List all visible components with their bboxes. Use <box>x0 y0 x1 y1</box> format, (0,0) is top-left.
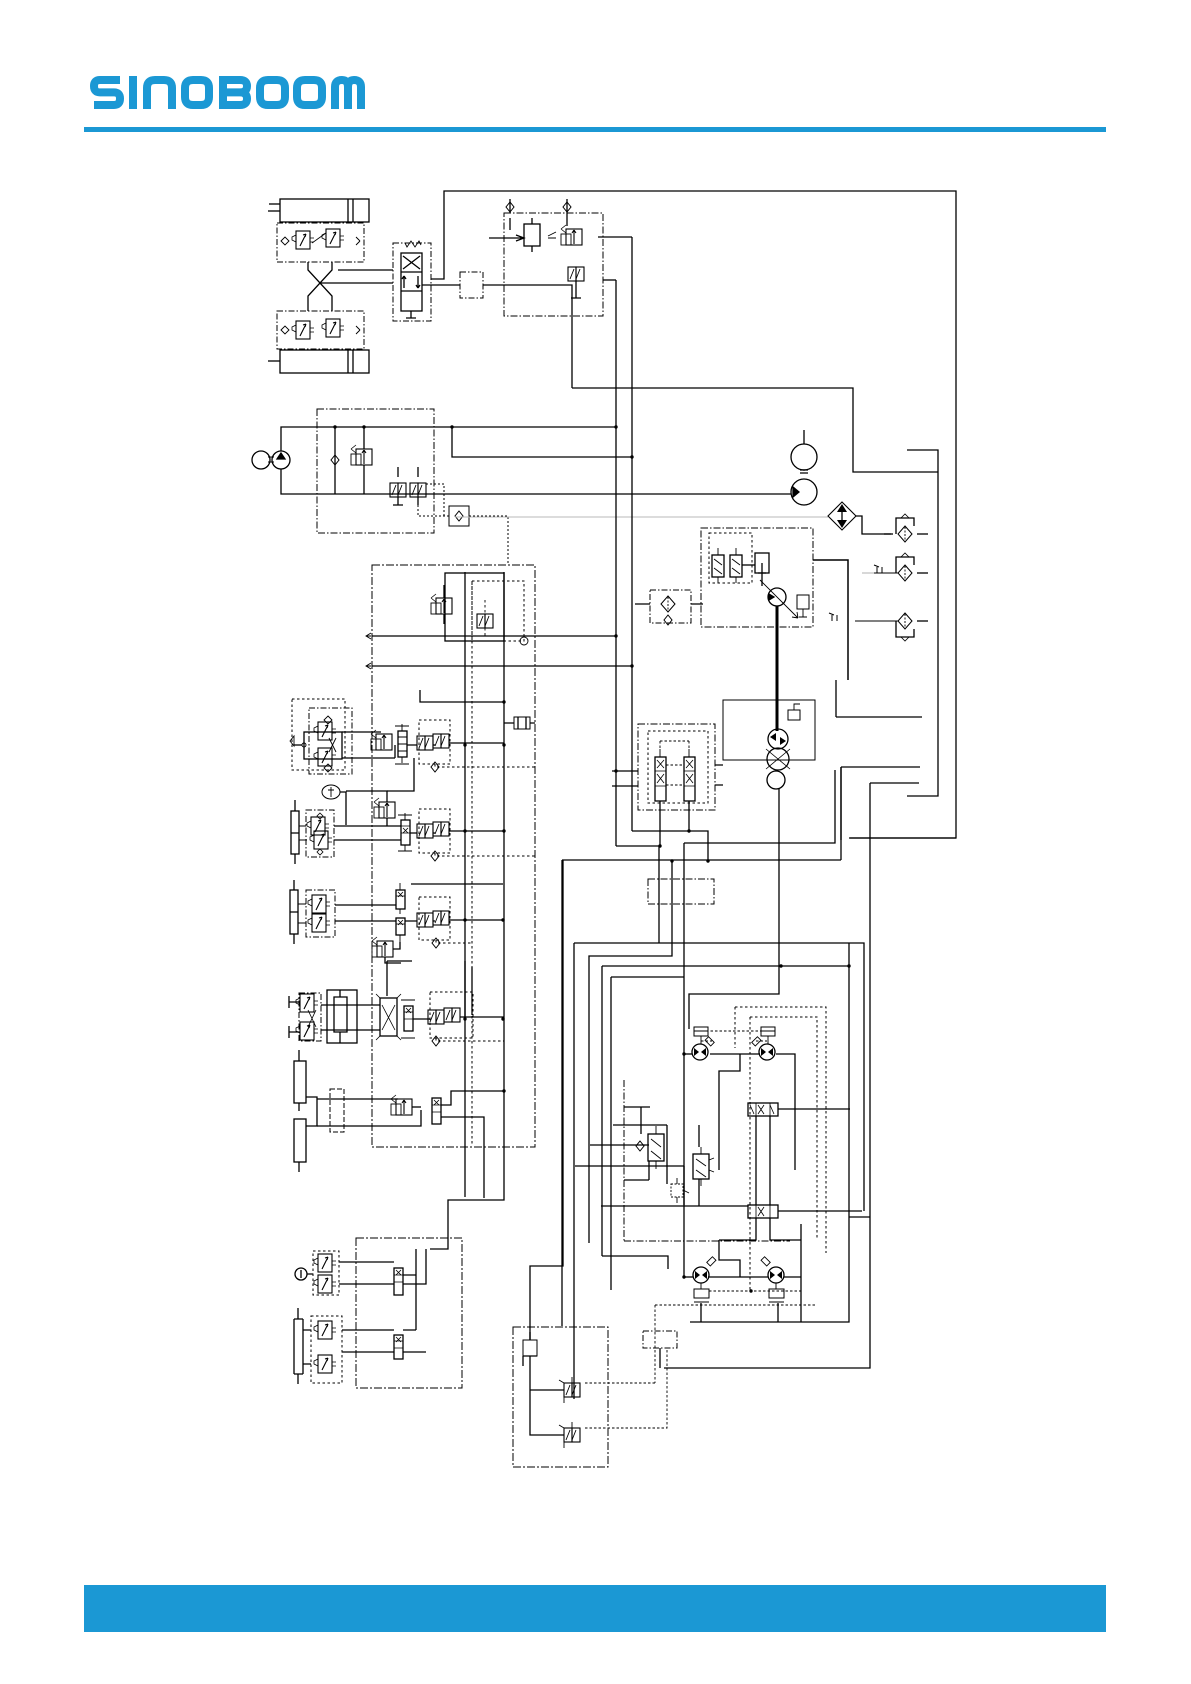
shuttle diamond drive <box>636 1141 644 1151</box>
wire steering unit top long loop <box>431 191 956 838</box>
gen spool 2 <box>394 1335 426 1359</box>
pl relief <box>372 937 401 963</box>
tele port valves dotted box <box>428 992 504 1038</box>
wire T bus step <box>632 831 708 860</box>
flow divider 2 <box>748 1205 778 1218</box>
rear motor R <box>761 1257 784 1302</box>
jib feed wires <box>334 826 401 840</box>
orifice in travel box <box>788 704 800 720</box>
swash pump circle <box>760 580 798 618</box>
accu out wires <box>441 1091 504 1198</box>
relief valve pump block <box>351 427 372 494</box>
swing prop spool <box>395 724 409 764</box>
accu spool <box>432 1098 441 1124</box>
pl port valves dotted box <box>405 897 503 940</box>
accumulator 1 <box>294 1050 306 1111</box>
wire drop 611 <box>611 977 684 1290</box>
swing top wire <box>420 690 504 702</box>
junction dots <box>333 425 850 1292</box>
tele top wires right <box>387 961 472 1019</box>
gen wires 2 <box>342 1330 394 1352</box>
port check top 1 <box>506 199 514 230</box>
drive manifold wires <box>575 1107 862 1240</box>
gen wires 1 <box>339 1262 394 1284</box>
front motor wires <box>684 789 795 1170</box>
cooler wire <box>856 516 891 534</box>
pl spool lower <box>396 918 405 942</box>
wire drop 672-589 <box>589 861 672 1243</box>
swing feed wires <box>342 732 395 758</box>
relief valve in priority block <box>548 225 582 245</box>
tele cylinder <box>327 990 357 1043</box>
rear motor wires <box>602 1224 801 1368</box>
emergency valve 2 <box>535 1422 580 1448</box>
jib cb valve block <box>299 810 334 857</box>
main pump circle <box>791 470 817 505</box>
wires from priority block down <box>598 237 632 280</box>
swing relief valve <box>371 730 392 750</box>
swing block dotted outer <box>292 699 345 770</box>
manifold inlet dotted box <box>472 581 528 645</box>
counterbalance valve block top (dashed) <box>277 223 364 262</box>
brake pilot dotted bus <box>585 1291 817 1428</box>
solenoid valve in priority block <box>568 267 584 298</box>
front motor L <box>692 1027 714 1060</box>
wire brake header <box>684 770 835 843</box>
drive valve 1 <box>648 1126 664 1169</box>
footer bar <box>84 1585 1106 1632</box>
emergency hand pump <box>523 1332 537 1366</box>
swing return dotted <box>435 764 537 767</box>
tele spool <box>401 1000 415 1038</box>
travel filter box <box>635 590 703 625</box>
tele return dotted + diamond <box>432 1036 504 1046</box>
accumulator 2 <box>294 1119 306 1172</box>
pump pressure line <box>281 427 616 451</box>
swing lock valve body <box>290 716 342 772</box>
tele lock block <box>289 993 321 1041</box>
swash servo piston <box>742 553 769 586</box>
tele wire to valves <box>413 1018 430 1020</box>
wire steering to unit <box>364 270 393 283</box>
rear motor L <box>693 1257 716 1302</box>
pl top wire <box>411 883 503 885</box>
SINOBOOM logo <box>94 76 361 109</box>
tele wires <box>321 1005 380 1030</box>
pilot filter square <box>449 506 469 526</box>
engine circle <box>252 451 270 469</box>
gen motor circle <box>295 1268 313 1280</box>
swing check diamond return <box>431 762 439 772</box>
ls valve pump block <box>410 467 426 505</box>
jib relief <box>346 758 414 826</box>
comp valve 1 <box>712 548 724 583</box>
drive enclosure top <box>574 943 864 1211</box>
pressure bus vertical <box>430 572 504 1249</box>
charge motor circle <box>791 430 817 470</box>
gen valve block 1 <box>313 1251 339 1295</box>
jib port valves dotted box <box>410 809 504 853</box>
travel spool 1 <box>655 749 666 808</box>
generator enclosure <box>356 1238 462 1388</box>
wire return header <box>562 767 841 860</box>
swing port valves dotted box <box>407 720 504 764</box>
pump control block (dash-dot) <box>701 528 813 627</box>
main manifold enclosure (dash-dot) <box>372 565 535 1147</box>
return filter 2 <box>896 553 928 581</box>
crossed steering lines <box>308 262 364 311</box>
pilot bus vertical dotted <box>464 572 466 1197</box>
suction line gray <box>455 516 828 518</box>
manifold top feed lines <box>366 237 632 846</box>
travel pilot dots <box>660 741 689 785</box>
drive valve manifold dashed edge <box>624 1080 790 1241</box>
steering cylinder bottom <box>268 350 369 373</box>
wire drop 684 <box>602 843 849 1277</box>
wire unit to mid block (dash-dot coupler) <box>422 272 572 388</box>
return filter 3 <box>896 613 928 641</box>
return filter 1 <box>884 512 928 546</box>
swing block dash-dot inner <box>309 708 352 774</box>
travel control enclosure <box>638 724 715 810</box>
accu dashed box <box>330 1089 344 1132</box>
jib return dotted <box>435 853 537 856</box>
emergency internal wires <box>530 1356 564 1435</box>
pl wires <box>335 905 396 921</box>
filter in priority block <box>524 218 540 252</box>
comp valve 2 <box>730 548 742 583</box>
travel spool 2 <box>684 749 695 808</box>
pl spool upper <box>396 883 405 914</box>
left port arrow priority block <box>489 235 524 241</box>
accu relief valve <box>391 1095 421 1115</box>
wire drop 602 <box>601 966 603 1256</box>
drive prop valve <box>693 1147 714 1186</box>
cooler bypass diamond <box>828 502 856 530</box>
pump to cooler wire <box>813 560 848 680</box>
gen spool 1 <box>394 1268 403 1295</box>
wire drop 574 <box>573 943 575 1399</box>
drive orifice valve <box>671 1178 689 1203</box>
header rule <box>84 127 1106 132</box>
pilot dotted lines pump <box>418 484 508 565</box>
wire P bus step <box>616 846 659 943</box>
travel wires <box>612 680 956 1368</box>
emergency valve 1 <box>535 1377 580 1403</box>
pl return dotted <box>436 940 472 943</box>
gen cylinder 2 <box>294 1308 311 1384</box>
wire left drop 562 <box>561 860 563 1326</box>
travel motor box <box>723 700 815 760</box>
tele crossover valve <box>376 994 401 1040</box>
bus vertical x563 <box>530 860 563 1340</box>
drain valve 2 <box>874 565 898 573</box>
travel spool drops <box>660 801 689 846</box>
priority valve block (dash-dot) <box>504 213 603 316</box>
front motor dotted box <box>735 1007 826 1291</box>
manifold inlet box top <box>431 573 504 641</box>
jib check diamond return <box>431 851 439 861</box>
drain valve 3 <box>829 613 898 621</box>
accu wires <box>306 1097 421 1126</box>
check valve in pump block <box>331 427 339 494</box>
bulkhead coupler box <box>648 879 714 904</box>
jib gauge <box>322 785 346 825</box>
pump block box (dash-dot) <box>317 409 434 533</box>
main pump circle <box>268 451 290 469</box>
pl cylinder <box>290 880 298 944</box>
tank return staircase wires <box>572 388 938 796</box>
pl cb valve block <box>298 890 335 937</box>
heavy swash line down <box>776 606 779 731</box>
port check top 2 <box>563 199 571 226</box>
flow divider 1 <box>748 1103 778 1116</box>
jib cylinder <box>291 800 299 864</box>
gen feed verticals <box>403 1249 426 1330</box>
pressure comp valve pump block <box>390 467 406 505</box>
jib spool <box>398 813 412 851</box>
pump case line <box>281 469 791 494</box>
travel motor trio <box>766 729 790 789</box>
pump drain valve <box>797 595 809 617</box>
gen valve block 2 <box>311 1316 342 1383</box>
steering cylinder top <box>268 199 369 222</box>
front motor R <box>752 1027 775 1060</box>
shuttle box rear <box>643 1331 677 1348</box>
steering unit (orbitrol) <box>393 241 431 321</box>
counterbalance valve block bottom (dashed) <box>277 311 364 349</box>
